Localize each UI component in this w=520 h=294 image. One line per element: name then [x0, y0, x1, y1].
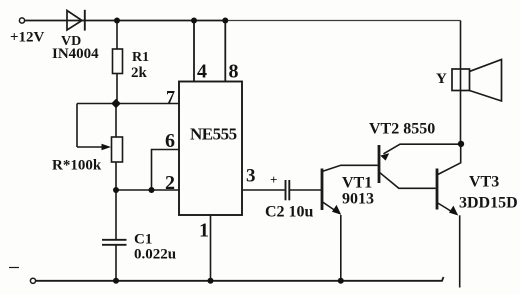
svg-text:8: 8 — [229, 61, 239, 83]
svg-text:0.022u: 0.022u — [134, 247, 176, 263]
svg-text:R*100k: R*100k — [52, 158, 102, 174]
svg-text:6: 6 — [165, 130, 175, 152]
svg-text:VT2 8550: VT2 8550 — [369, 121, 435, 138]
svg-text:9013: 9013 — [342, 191, 374, 208]
svg-text:IN4004: IN4004 — [52, 46, 99, 62]
svg-text:1: 1 — [199, 220, 209, 242]
svg-text:+12V: +12V — [10, 30, 45, 46]
svg-text:2k: 2k — [131, 65, 148, 81]
svg-text:VT3: VT3 — [469, 174, 499, 191]
svg-text:4: 4 — [197, 61, 207, 83]
svg-text:C2 10u: C2 10u — [265, 204, 314, 221]
svg-text:C1: C1 — [134, 232, 152, 248]
svg-text:NE555: NE555 — [190, 125, 237, 144]
svg-text:3DD15D: 3DD15D — [459, 195, 518, 212]
svg-text:+: + — [270, 172, 277, 187]
svg-text:Y: Y — [436, 71, 447, 87]
svg-text:3: 3 — [246, 166, 256, 187]
svg-text:2: 2 — [165, 172, 175, 194]
svg-text:R1: R1 — [132, 50, 149, 65]
svg-text:7: 7 — [166, 87, 175, 107]
svg-text:VT1: VT1 — [342, 175, 372, 192]
